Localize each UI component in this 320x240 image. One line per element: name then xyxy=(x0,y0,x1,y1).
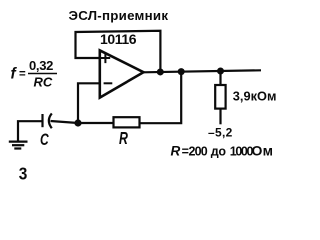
node junction at R feedback drop xyxy=(178,68,185,75)
svg-text:=200до1000Ом: =200до1000Ом xyxy=(182,143,274,159)
svg-text:RC: RC xyxy=(34,75,53,90)
node junction at pull-down resistor xyxy=(217,68,224,75)
svg-text:R: R xyxy=(119,129,128,149)
svg-text:10116: 10116 xyxy=(100,31,137,47)
capacitor C xyxy=(40,113,52,149)
svg-text:3,9кОм: 3,9кОм xyxy=(233,88,277,103)
wire: from − input down to RC node xyxy=(78,83,100,123)
wire: RC node to resistor R xyxy=(78,122,114,124)
wire: capacitor to RC node xyxy=(51,121,79,123)
svg-text:R: R xyxy=(171,144,181,159)
svg-text:0,32: 0,32 xyxy=(29,58,53,73)
value label: R = 200 до 1000 Ом xyxy=(171,143,274,159)
svg-text:3: 3 xyxy=(19,165,28,183)
svg-text:C: C xyxy=(40,131,49,149)
wire: resistor R to output drop xyxy=(140,72,182,124)
pin + xyxy=(101,53,110,63)
svg-text:–5,2: –5,2 xyxy=(208,126,233,140)
svg-text:ЭСЛ-приемник: ЭСЛ-приемник xyxy=(69,8,169,23)
wire: ground to capacitor xyxy=(18,121,43,141)
resistor 3,9 кОм pull-down xyxy=(215,71,276,124)
wire: output line to the right edge xyxy=(143,70,261,72)
ground xyxy=(9,142,28,149)
node junction RC node xyxy=(74,119,81,126)
svg-text:f: f xyxy=(11,66,18,83)
wire: positive feedback loop from output to + input xyxy=(76,31,161,72)
pin − xyxy=(104,82,113,84)
value label: formula f = 0,32/RC xyxy=(11,58,58,90)
node junction at output/feedback xyxy=(157,68,164,75)
svg-text:=: = xyxy=(19,69,26,81)
resistor R xyxy=(114,117,140,148)
op-amp U1 ECL receiver 10116 xyxy=(100,31,144,98)
